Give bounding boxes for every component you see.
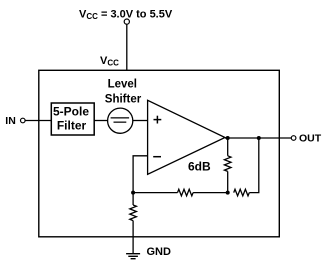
svg-text:GND: GND: [147, 246, 172, 258]
Vcc terminal: [124, 19, 129, 24]
wire op-amp minus input feedback: [133, 156, 148, 193]
wire level shifter to op-amp + input: [133, 120, 148, 122]
svg-text:Shifter: Shifter: [105, 94, 142, 106]
svg-text:6dB: 6dB: [188, 159, 211, 173]
svg-text:Filter: Filter: [57, 119, 87, 133]
svg-text:Level: Level: [108, 78, 137, 90]
resistor R3 (shunt from output): [224, 138, 231, 193]
resistor R4 (feedback lower right): [234, 189, 250, 196]
wire filter to level shifter: [94, 120, 108, 122]
node junction output B: [257, 136, 261, 140]
node junction minus/feedback: [131, 191, 135, 195]
node junction C: [226, 191, 230, 195]
wire op-amp output to OUT: [225, 137, 291, 139]
wire bottom feedback left segment: [133, 192, 177, 194]
wire Vcc terminal to block: [126, 24, 128, 70]
wire R2 to node C: [193, 192, 228, 194]
resistor R1 (to ground): [130, 193, 137, 254]
IN terminal: [21, 118, 26, 123]
node junction output A: [226, 136, 230, 140]
block boundary rectangle: [39, 70, 279, 237]
svg-text:IN: IN: [5, 115, 16, 127]
OUT terminal: [291, 136, 296, 141]
ground: [126, 254, 140, 259]
wire IN to filter: [25, 120, 51, 122]
filter block F1 (5-Pole Filter): [51, 103, 94, 135]
level shifter U1: [105, 78, 142, 133]
wire R4 to riser: [249, 138, 258, 193]
op-amp A1 (6dB): [148, 100, 225, 174]
svg-text:OUT: OUT: [299, 132, 322, 144]
resistor R2 (feedback lower left): [178, 189, 194, 196]
svg-text:5-Pole: 5-Pole: [53, 104, 89, 118]
